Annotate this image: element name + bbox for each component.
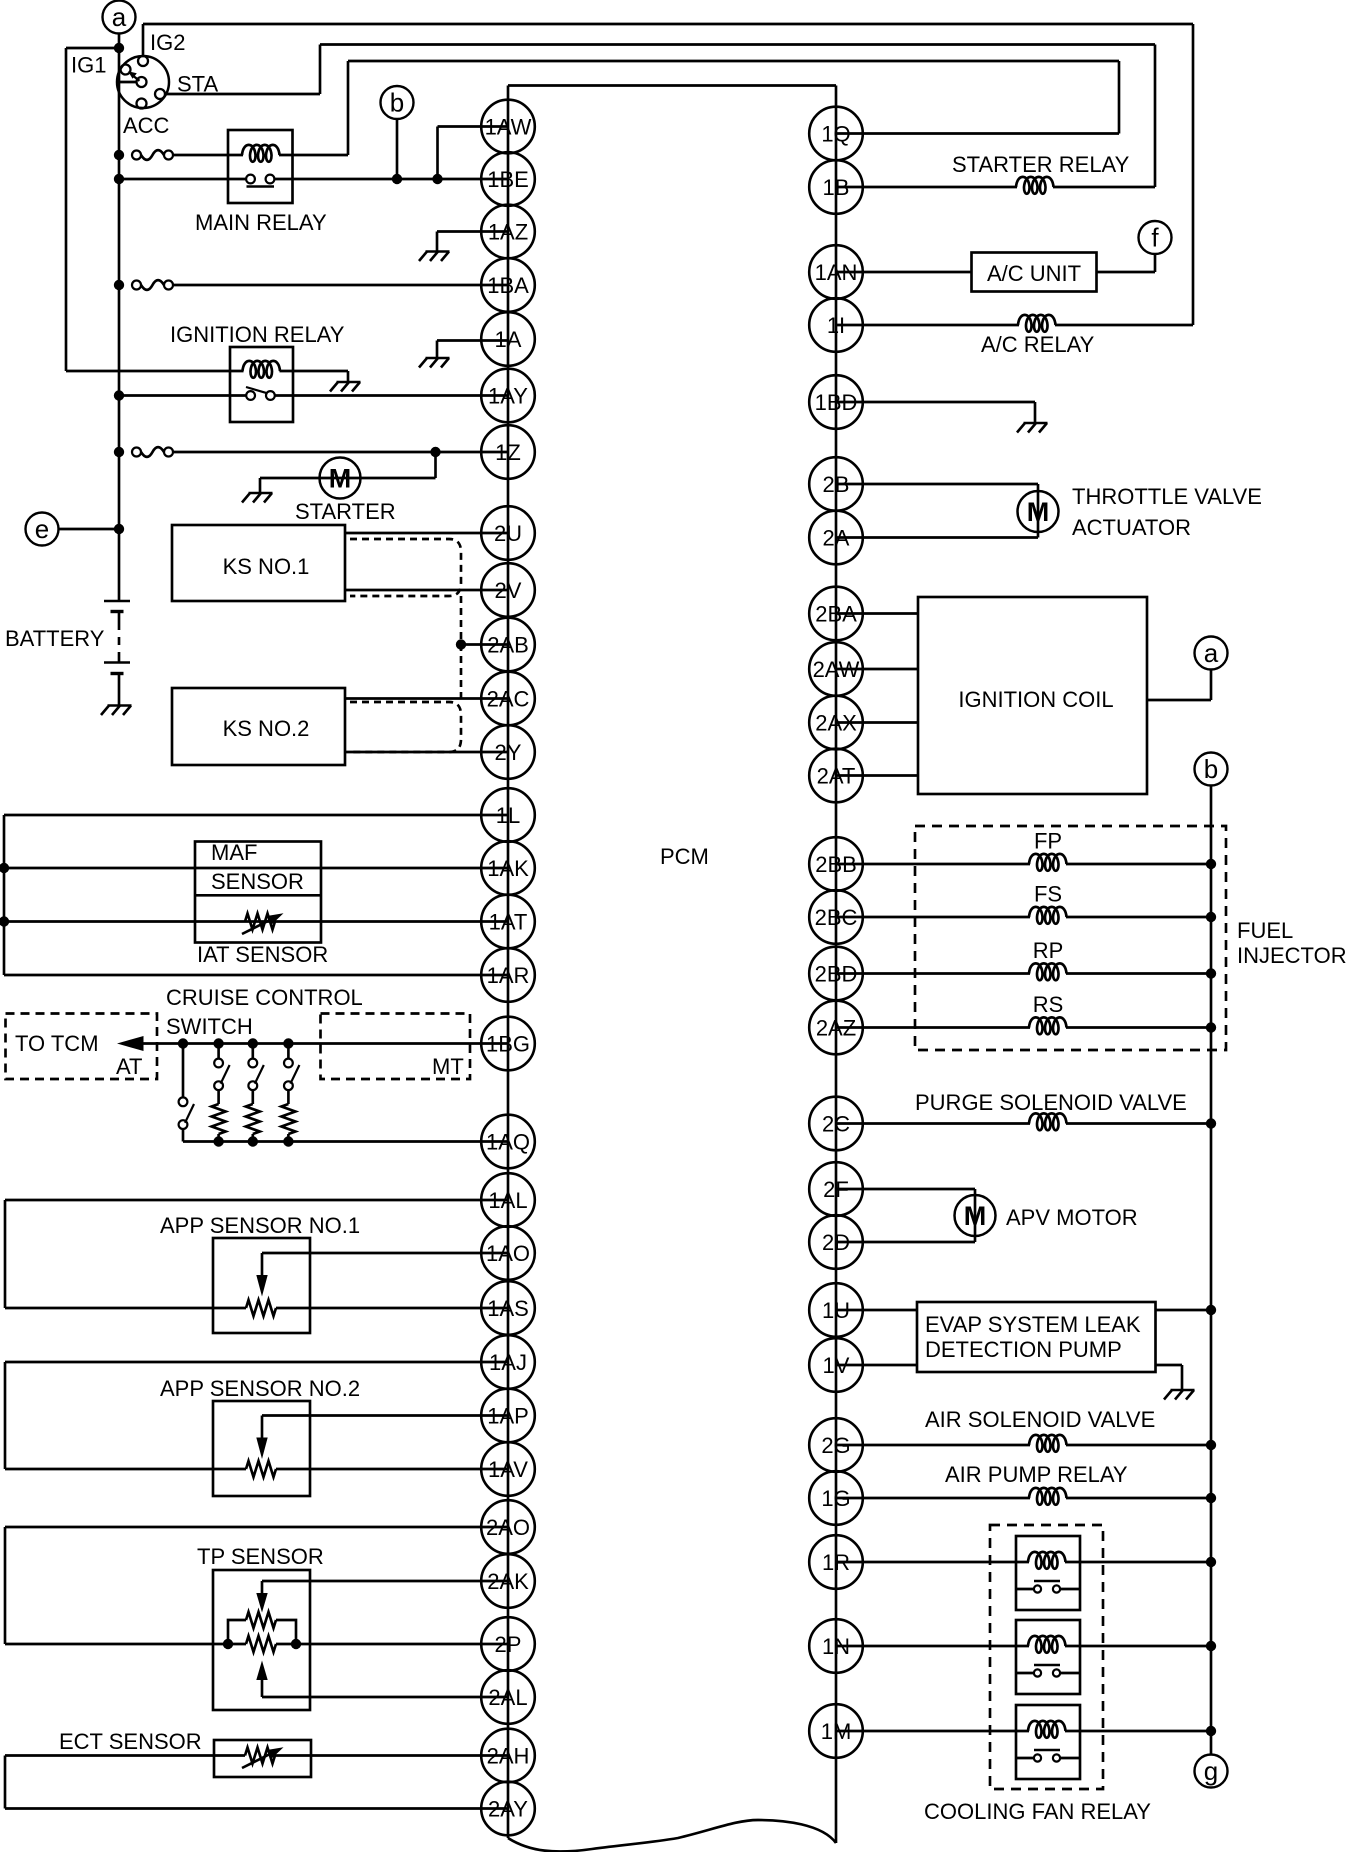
main relay contact right: [266, 175, 275, 184]
svg-text:M: M: [964, 1201, 987, 1231]
wire 2P row left: [5, 1643, 228, 1646]
svg-text:1Q: 1Q: [821, 122, 850, 147]
PCM pin 2BA: [809, 587, 863, 641]
svg-text:INJECTOR: INJECTOR: [1237, 943, 1347, 968]
svg-text:2B: 2B: [823, 472, 850, 497]
ignition switch pivot: [137, 77, 147, 87]
TP sensor box: [213, 1570, 310, 1710]
junction bus/2G: [1206, 1440, 1216, 1450]
wire ignition relay coil output: [280, 370, 349, 373]
svg-text:2D: 2D: [822, 1230, 850, 1255]
junction bus/1N: [1206, 1641, 1216, 1651]
PCM pin 2V: [481, 563, 535, 617]
wire IG2 feed top: [143, 23, 1193, 26]
connector a (right): [1195, 637, 1228, 670]
svg-text:RP: RP: [1033, 938, 1064, 963]
resistor TP upper: [246, 1612, 276, 1628]
svg-text:1L: 1L: [496, 803, 520, 828]
PCM pin 2U: [481, 506, 535, 560]
wire 2AH row right: [275, 1754, 508, 1757]
junction bus/RS: [1206, 1022, 1216, 1032]
connector f: [1139, 221, 1172, 254]
wire resistor 2 to 1AQ bus: [217, 1134, 220, 1142]
resistor APP sensor no.2: [246, 1461, 276, 1477]
wire 1AO row: [262, 1252, 508, 1255]
PCM pin 1BD: [809, 375, 863, 429]
PCM pin 1AR: [481, 948, 535, 1002]
wire ECT left drop: [4, 1756, 7, 1809]
PCM pin 1V: [809, 1338, 863, 1392]
main relay box: [228, 130, 293, 203]
svg-text:COOLING FAN RELAY: COOLING FAN RELAY: [924, 1799, 1151, 1824]
wire injector RP left: [836, 972, 1030, 975]
svg-text:A/C RELAY: A/C RELAY: [981, 332, 1095, 357]
svg-text:1AK: 1AK: [487, 856, 529, 881]
wire 2AH row left: [5, 1754, 245, 1757]
MAF/IAT sensor box: [195, 842, 321, 943]
cooling fan relay box (1N): [1016, 1620, 1080, 1694]
junction left bus/1AK: [0, 863, 9, 873]
ground starter motor: [242, 478, 273, 503]
A/C relay coil: [1018, 315, 1056, 332]
wire starter branch drop: [434, 452, 437, 478]
wire TP main resistor right: [276, 1643, 296, 1646]
EVAP pump box: [917, 1302, 1156, 1372]
PCM pin 2AB: [481, 618, 535, 672]
APP1 wiper arrow: [256, 1253, 267, 1297]
wire 2AY row: [5, 1807, 508, 1810]
wire 1AK row: [4, 867, 508, 870]
PCM pin 2AW: [809, 642, 863, 696]
wire 1B to starter relay coil: [836, 186, 1017, 189]
ignition relay coil: [243, 361, 281, 378]
ignition coil box: [918, 597, 1147, 794]
svg-text:2C: 2C: [822, 1112, 850, 1137]
svg-text:A/C UNIT: A/C UNIT: [987, 261, 1081, 286]
svg-text:1G: 1G: [821, 1486, 850, 1511]
junction bus/FP: [1206, 859, 1216, 869]
wire 1AP row: [262, 1414, 508, 1417]
wire main relay to 1Q drop: [1118, 61, 1121, 134]
wire riser to f: [1154, 254, 1157, 272]
TP upper resistor loop: [228, 1620, 296, 1644]
PCM pin 1AK: [481, 841, 535, 895]
svg-text:2F: 2F: [823, 1177, 849, 1202]
wire fuse to 1BA: [173, 284, 508, 287]
ignition switch contact IG2: [138, 56, 148, 66]
svg-text:1AL: 1AL: [488, 1188, 527, 1213]
PCM pin 2Y: [481, 725, 535, 779]
junction bus/FS: [1206, 912, 1216, 922]
svg-text:2AL: 2AL: [488, 1685, 527, 1710]
MAF/IAT divider: [195, 894, 321, 897]
wire riser to a: [1210, 670, 1213, 701]
junction 1BG wire x=218.6: [213, 1038, 223, 1048]
PCM pin 2BB: [809, 837, 863, 891]
PCM pin 1AP: [481, 1389, 535, 1443]
PCM pin 2D: [809, 1215, 863, 1269]
PCM pin 1A: [481, 312, 535, 366]
air pump relay coil: [1029, 1488, 1067, 1505]
shield KS1 twisted pair: [350, 539, 461, 596]
svg-text:1AQ: 1AQ: [486, 1130, 530, 1155]
connector a (top): [103, 1, 136, 34]
ground 1AZ: [419, 232, 450, 262]
svg-text:KS NO.2: KS NO.2: [223, 716, 310, 741]
wire STA feed left riser: [319, 45, 322, 95]
wire 2AT to ignition coil: [836, 774, 918, 777]
svg-text:APP SENSOR NO.2: APP SENSOR NO.2: [160, 1376, 360, 1401]
svg-text:1B: 1B: [823, 175, 850, 200]
svg-text:f: f: [1151, 223, 1159, 253]
PCM pin 1AO: [481, 1226, 535, 1280]
svg-text:FP: FP: [1034, 829, 1062, 854]
cooling fan relay box (1R): [1016, 1536, 1080, 1610]
wire PCM right rail: [835, 86, 838, 1844]
PCM pin 2BC: [809, 890, 863, 944]
junction 1BG wire x=183: [178, 1038, 188, 1048]
wire to APP1 resistor: [5, 1307, 246, 1310]
wire ignition relay contact to 1AY: [275, 394, 508, 397]
ECT sensor box: [214, 1740, 311, 1777]
arrowhead TO TCM: [117, 1036, 144, 1051]
wire purge coil to bus: [1066, 1122, 1211, 1125]
starter relay coil: [1016, 177, 1054, 194]
svg-text:2P: 2P: [495, 1632, 522, 1657]
wire bus to main relay contact: [119, 178, 246, 181]
junction bus/RP: [1206, 968, 1216, 978]
wire shield to 2AB: [461, 643, 508, 646]
svg-text:g: g: [1204, 1756, 1218, 1786]
battery: [104, 601, 130, 674]
wire 1V to EVAP pump: [836, 1364, 917, 1367]
svg-text:2AY: 2AY: [488, 1797, 528, 1822]
injector coil FS: [1029, 907, 1067, 924]
PCM pin 1BG: [481, 1017, 535, 1071]
wire KS2 to 2Y: [345, 751, 508, 754]
wire 2D row: [836, 1241, 975, 1244]
svg-text:1BE: 1BE: [487, 167, 529, 192]
junction a/IG1/battery bus: [114, 43, 124, 53]
wire 1AQ row: [183, 1140, 508, 1143]
motor APV M: [955, 1195, 996, 1236]
svg-text:2A: 2A: [823, 526, 850, 551]
svg-text:1AR: 1AR: [487, 963, 530, 988]
wire resistor 3 to 1AQ bus: [251, 1134, 254, 1142]
svg-text:PCM: PCM: [660, 844, 709, 869]
fuse main relay feed: [132, 150, 173, 160]
cooling fan relay dashed box: [990, 1525, 1103, 1789]
wire APP1 left drop: [4, 1200, 7, 1308]
svg-text:CRUISE CONTROL: CRUISE CONTROL: [166, 985, 363, 1010]
ignition switch rotor arrow: [128, 71, 140, 81]
svg-text:AT: AT: [116, 1054, 142, 1079]
wire STA feed top: [320, 43, 1155, 46]
svg-text:1BG: 1BG: [486, 1032, 530, 1057]
cooling fan relay contact (1M): [1016, 1750, 1080, 1762]
junction 1AW branch on 1BE wire: [432, 174, 442, 184]
svg-text:MAIN RELAY: MAIN RELAY: [195, 210, 327, 235]
wire KS2 to 2AC: [345, 697, 508, 700]
svg-text:MT: MT: [432, 1054, 464, 1079]
PCM pin 1AN: [809, 245, 863, 299]
junction bus/main relay fuse: [114, 150, 124, 160]
wire 1AR row: [4, 974, 508, 977]
wire battery bus vertical: [118, 48, 121, 601]
svg-text:1AW: 1AW: [485, 115, 532, 140]
wire air pump relay to bus: [1066, 1497, 1211, 1500]
wire main relay to 1Q top: [348, 60, 1119, 63]
wire to TP main resistor: [228, 1643, 246, 1646]
svg-text:2V: 2V: [495, 578, 522, 603]
svg-text:1BA: 1BA: [487, 273, 529, 298]
PCM pin 2AK: [481, 1554, 535, 1608]
ignition switch contact IG1: [121, 65, 131, 75]
IAT thermistor: [242, 913, 284, 934]
fuse 1BA feed: [132, 280, 173, 290]
svg-text:IG1: IG1: [71, 53, 106, 78]
svg-text:EVAP SYSTEM LEAK: EVAP SYSTEM LEAK: [925, 1312, 1141, 1337]
wire injector FS left: [836, 916, 1030, 919]
wire 1AN to A/C unit: [836, 271, 972, 274]
PCM pin 2AH: [481, 1729, 535, 1783]
wire main relay output riser: [347, 61, 350, 155]
wire IG1 branch drop: [65, 48, 68, 371]
TP wiper arrow down: [256, 1581, 267, 1613]
svg-text:2AK: 2AK: [487, 1569, 529, 1594]
svg-text:1AJ: 1AJ: [489, 1350, 527, 1375]
wire throttle actuator loop: [1037, 484, 1040, 538]
KS NO.1 box: [172, 525, 345, 601]
wire EVAP pump to bus: [1156, 1309, 1212, 1312]
wire STA feed right drop: [1154, 45, 1157, 188]
svg-text:2AB: 2AB: [487, 633, 529, 658]
PCM pin 2C: [809, 1097, 863, 1151]
cooling fan relay coil (1M): [1028, 1721, 1066, 1738]
ignition relay contact right: [266, 391, 275, 400]
PCM pin 2AL: [481, 1670, 535, 1724]
svg-text:1AZ: 1AZ: [488, 220, 528, 245]
wire PCM left rail: [507, 86, 510, 1839]
wire injector RS left: [836, 1026, 1030, 1029]
svg-text:AIR PUMP RELAY: AIR PUMP RELAY: [945, 1462, 1128, 1487]
svg-text:SWITCH: SWITCH: [166, 1014, 253, 1039]
junction bus/1Z fuse: [114, 447, 124, 457]
APP sensor no.1 box: [213, 1238, 310, 1333]
ignition switch body: [117, 56, 169, 108]
wire 2G left: [836, 1444, 1030, 1447]
connector b (top): [381, 86, 414, 119]
svg-text:DETECTION PUMP: DETECTION PUMP: [925, 1337, 1122, 1362]
PCM pin 1I: [809, 298, 863, 352]
svg-text:1N: 1N: [822, 1634, 850, 1659]
svg-text:2AX: 2AX: [815, 711, 857, 736]
junction TP resistor right: [291, 1639, 301, 1649]
wire bus to ignition relay contact: [119, 394, 246, 397]
svg-text:IGNITION COIL: IGNITION COIL: [958, 687, 1113, 712]
svg-text:FUEL: FUEL: [1237, 918, 1293, 943]
svg-text:RS: RS: [1033, 992, 1064, 1017]
wire right supply bus: [1210, 786, 1213, 1755]
PCM pin 1BE: [481, 152, 535, 206]
svg-text:1M: 1M: [821, 1719, 852, 1744]
cooling fan relay contact (1R): [1016, 1581, 1080, 1593]
svg-text:IGNITION RELAY: IGNITION RELAY: [170, 322, 345, 347]
svg-text:M: M: [329, 464, 352, 494]
junction bus/1U: [1206, 1305, 1216, 1315]
wire injector FS to bus: [1066, 916, 1211, 919]
wire 1G left: [836, 1497, 1030, 1500]
PCM pin 1AV: [481, 1442, 535, 1496]
svg-text:2AZ: 2AZ: [816, 1016, 856, 1041]
cruise switch 4 with resistor: [284, 1044, 299, 1105]
wire to APP2 resistor: [5, 1468, 246, 1471]
ignition relay box: [230, 347, 293, 422]
PCM pin 1U: [809, 1283, 863, 1337]
PCM pin 1BA: [481, 258, 535, 312]
svg-text:TO TCM: TO TCM: [15, 1031, 99, 1056]
svg-text:1I: 1I: [827, 313, 845, 338]
wire TP left drop: [4, 1527, 7, 1644]
svg-text:PURGE SOLENOID VALVE: PURGE SOLENOID VALVE: [915, 1090, 1187, 1115]
junction starter branch: [430, 447, 440, 457]
wire b drop: [396, 119, 399, 179]
svg-text:2AH: 2AH: [487, 1744, 530, 1769]
wire 2AL row: [262, 1696, 508, 1699]
wire injector RP to bus: [1066, 972, 1211, 975]
junction 1BG wire x=288.4: [283, 1038, 293, 1048]
svg-text:1BD: 1BD: [815, 390, 858, 415]
ignition switch contact STA: [155, 89, 165, 99]
PCM pin 1AQ: [481, 1115, 535, 1169]
PCM pin 1AT: [481, 895, 535, 949]
wire KS1 to 2V: [345, 589, 508, 592]
wire 1BG row: [130, 1042, 508, 1045]
connector e: [26, 513, 59, 546]
shield KS2 twisted pair: [350, 702, 461, 752]
PCM pin 1N: [809, 1619, 863, 1673]
cooling fan relay coil (1N): [1028, 1636, 1066, 1653]
main relay coil: [242, 145, 280, 162]
svg-text:e: e: [35, 514, 49, 544]
junction b drop on 1BE wire: [392, 174, 402, 184]
wire injector FP left: [836, 863, 1030, 866]
resistor APP sensor no.1: [246, 1300, 276, 1316]
APP sensor no.2 box: [213, 1401, 310, 1496]
ignition relay contact blade: [246, 387, 268, 393]
fuse 1Z feed: [132, 447, 173, 457]
wire 2AX to ignition coil: [836, 721, 918, 724]
svg-text:APV MOTOR: APV MOTOR: [1006, 1205, 1138, 1230]
ground EVAP pump: [1164, 1365, 1195, 1400]
PCM pin 1AZ: [481, 205, 535, 259]
junction bus/1BA fuse: [114, 280, 124, 290]
wire 1R to fan relay coil: [836, 1561, 1029, 1564]
junction bus/1BE: [114, 174, 124, 184]
KS NO.2 box: [172, 688, 345, 765]
PCM pin 1R: [809, 1535, 863, 1589]
svg-text:2Y: 2Y: [495, 740, 522, 765]
svg-text:2G: 2G: [821, 1433, 850, 1458]
wire 1AJ row: [5, 1361, 508, 1364]
svg-text:1AY: 1AY: [488, 384, 528, 409]
junction 1AQ wire x=252.8: [248, 1136, 258, 1146]
PCM pin 2AO: [481, 1500, 535, 1554]
wire 1N to fan relay coil: [836, 1645, 1029, 1648]
wire 1L row: [4, 814, 508, 817]
PCM pin 1B: [809, 160, 863, 214]
wire A/C relay coil to IG2 feed: [1055, 324, 1193, 327]
wire APV motor loop: [974, 1189, 977, 1242]
wire junction to IG1 branch: [66, 47, 119, 50]
wire 2C left: [836, 1122, 1030, 1125]
ground 1A: [419, 341, 450, 368]
svg-text:2AO: 2AO: [486, 1515, 530, 1540]
PCM pin 1AJ: [481, 1335, 535, 1389]
svg-text:1AP: 1AP: [487, 1404, 529, 1429]
wire injector RS to bus: [1066, 1026, 1211, 1029]
svg-text:STARTER: STARTER: [295, 499, 396, 524]
wire ignition coil to a: [1147, 699, 1211, 702]
wire fuse to main relay coil: [173, 154, 243, 157]
PCM pin 2AC: [481, 672, 535, 726]
junction 1AQ wire x=288.4: [283, 1136, 293, 1146]
wire 2BA to ignition coil: [836, 612, 918, 615]
PCM pin 2A: [809, 511, 863, 565]
AT dashed box: [6, 1014, 158, 1080]
wire main relay contact to 1BE: [274, 178, 508, 181]
svg-text:M: M: [1027, 497, 1050, 527]
wire 2AO row: [5, 1526, 508, 1529]
PCM pin 2AX: [809, 696, 863, 750]
wire air solenoid to bus: [1066, 1444, 1211, 1447]
wire fuse to 1Z: [173, 451, 508, 454]
wire 1Q row: [836, 132, 1119, 135]
PCM pin 1L: [481, 788, 535, 842]
svg-text:ECT SENSOR: ECT SENSOR: [59, 1729, 202, 1754]
wire 2AK row: [262, 1580, 508, 1583]
motor throttle valve actuator M: [1018, 491, 1059, 532]
cruise switch 2 with resistor: [214, 1044, 229, 1105]
svg-text:2BD: 2BD: [815, 962, 858, 987]
wire 1AT row: [4, 920, 508, 923]
PCM pin 1AL: [481, 1173, 535, 1227]
wire KS1 to 2U: [345, 532, 508, 535]
svg-text:a: a: [1204, 638, 1219, 668]
PCM pin 2AT: [809, 749, 863, 803]
junction bus/1G: [1206, 1493, 1216, 1503]
wire resistor 4 to 1AQ bus: [287, 1134, 290, 1142]
ground 1BD: [1017, 402, 1048, 433]
svg-text:ACTUATOR: ACTUATOR: [1072, 515, 1191, 540]
injector coil RP: [1029, 963, 1067, 980]
cooling fan relay coil (1R): [1028, 1552, 1066, 1569]
svg-text:BATTERY: BATTERY: [5, 626, 105, 651]
junction 1AQ wire x=218.6: [213, 1136, 223, 1146]
svg-text:b: b: [1204, 754, 1218, 784]
junction 1BG wire x=252.8: [248, 1038, 258, 1048]
ignition switch contact ACC: [137, 99, 147, 109]
wire 1AW branch to pin: [438, 125, 509, 128]
PCM pin 1AS: [481, 1281, 535, 1335]
resistor cruise switch 4: [281, 1104, 295, 1134]
junction bus/1M: [1206, 1726, 1216, 1736]
main relay contact left: [246, 175, 255, 184]
svg-text:2BA: 2BA: [815, 602, 857, 627]
wire main relay coil output: [279, 154, 348, 157]
svg-text:1AV: 1AV: [488, 1457, 528, 1482]
PCM pin 2AY: [481, 1782, 535, 1836]
